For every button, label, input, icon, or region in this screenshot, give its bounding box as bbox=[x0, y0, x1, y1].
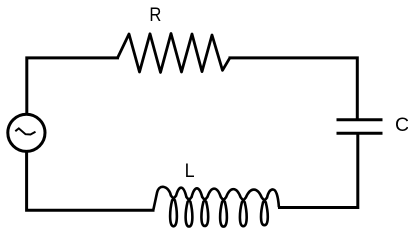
wire: bottom left segment + left vertical up to source (bottom-left corner) bbox=[27, 151, 155, 211]
resistor R zigzag bbox=[118, 34, 230, 73]
wire: left vertical upper + top wire left segment (top-left corner) bbox=[27, 58, 119, 115]
capacitor C top plate bbox=[337, 118, 383, 121]
svg-text:C: C bbox=[395, 114, 408, 136]
capacitor C bottom plate bbox=[337, 132, 383, 135]
ac source circle bbox=[8, 114, 45, 151]
ac source sine symbol bbox=[15, 128, 35, 134]
svg-text:L: L bbox=[185, 159, 195, 181]
inductor L coil bbox=[153, 187, 279, 227]
svg-text:R: R bbox=[149, 4, 161, 26]
wire: right vertical below capacitor + bottom right segment (bottom-right corner) bbox=[278, 135, 358, 208]
wire: top wire right segment + right vertical down to capacitor (top-right corner) bbox=[229, 58, 358, 119]
